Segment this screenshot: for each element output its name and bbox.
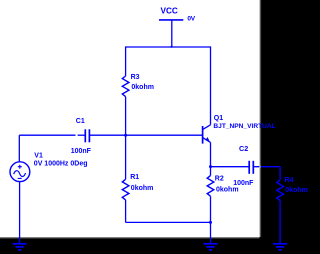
power VCC symbol bar — [159, 19, 183, 21]
wire R4 drop — [279, 167, 281, 180]
junction at bottom node — [209, 221, 212, 224]
svg-text:0V 1000Hz 0Deg: 0V 1000Hz 0Deg — [34, 160, 88, 167]
wire V1 stem — [18, 135, 20, 162]
wire C2 to R4 — [253, 166, 280, 168]
ground under R2 — [204, 244, 218, 250]
sheet right edge shadow — [260, 0, 262, 237]
wire R2 to ground node — [210, 196, 212, 244]
wire C1 to base — [89, 134, 202, 136]
svg-text:100nF: 100nF — [233, 180, 254, 187]
resistor R1 — [122, 179, 129, 200]
sheet (white schematic page) — [0, 0, 260, 237]
svg-text:R1: R1 — [130, 174, 139, 181]
svg-text:BJT_NPN_VIRTUAL: BJT_NPN_VIRTUAL — [213, 123, 275, 130]
svg-text:0kohm: 0kohm — [216, 187, 239, 194]
svg-text:0V: 0V — [187, 16, 195, 23]
wire R1 to bottom node — [125, 200, 127, 223]
resistor R2 — [207, 176, 214, 197]
ground under V1 — [13, 244, 27, 250]
capacitor C1 plates — [84, 129, 86, 142]
transistor Q1 collector diagonal — [203, 125, 211, 130]
wire rail to R3 — [125, 46, 127, 76]
svg-text:Q1: Q1 — [214, 115, 223, 122]
wire bottom horizontal — [126, 221, 211, 223]
junction at emitter node — [209, 165, 212, 168]
svg-text:0kohm: 0kohm — [131, 185, 154, 192]
resistor R4 — [277, 180, 284, 201]
transistor Q1 emitter diagonal — [203, 138, 211, 143]
wire emitter node to R2 — [210, 167, 212, 176]
wire V1 to C1 — [19, 134, 75, 136]
svg-text:VCC: VCC — [161, 7, 178, 16]
svg-text:0kohm: 0kohm — [285, 187, 308, 194]
sheet edge break on C2 wire — [259, 165, 260, 168]
transistor Q1 base bar — [202, 126, 204, 144]
svg-text:V1: V1 — [34, 152, 43, 159]
wire top rail — [126, 46, 211, 48]
wire V1 to ground — [19, 181, 21, 243]
V1 sine wave — [14, 171, 26, 177]
svg-text:C1: C1 — [76, 118, 85, 125]
transistor Q1 emitter arrow — [205, 137, 209, 141]
resistor R3 — [122, 76, 129, 97]
junction at base node — [124, 134, 127, 137]
ground under R4 — [273, 244, 287, 250]
V1 plus sign — [18, 165, 22, 169]
V1 minus sign — [18, 177, 22, 179]
wire R4 to ground — [279, 201, 281, 244]
wire emitter node to C2 — [211, 166, 250, 168]
capacitor C2 plates — [248, 161, 250, 174]
svg-text:R2: R2 — [215, 176, 224, 183]
source V1 circle — [10, 162, 30, 182]
wire emitter down — [210, 142, 212, 166]
svg-text:R3: R3 — [131, 74, 140, 81]
wire base node to R1 — [125, 135, 127, 179]
svg-text:100nF: 100nF — [71, 148, 92, 155]
svg-text:R4: R4 — [285, 177, 294, 184]
wire VCC stem — [171, 20, 173, 47]
capacitor C1 left pin — [78, 134, 86, 136]
svg-text:0kohm: 0kohm — [131, 84, 154, 91]
wire R3 to base node — [125, 97, 127, 136]
svg-text:C2: C2 — [239, 144, 248, 153]
sheet bottom edge shadow — [0, 237, 260, 239]
wire rail to collector — [210, 46, 212, 124]
junction at VCC stem and rail — [171, 46, 173, 48]
